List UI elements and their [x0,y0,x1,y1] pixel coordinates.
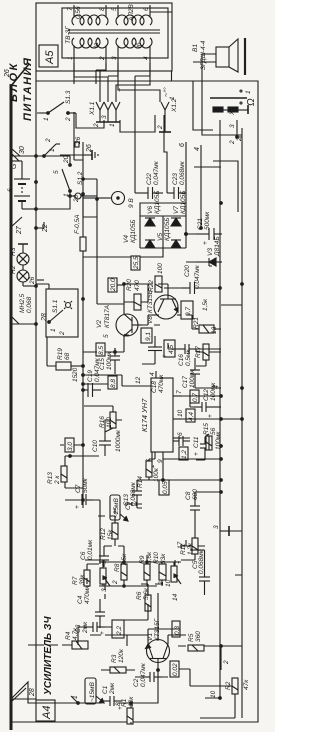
capacitor C20 0.047mk [182,264,221,294]
wire T1 primary to X1 [74,63,108,102]
voltage box 3.0 [65,438,74,452]
node V2 emitter-C15 [114,351,117,354]
svg-text:Н2: Н2 [10,265,17,274]
wire 0.02 to R2 [179,669,232,686]
transformer T1 enclosure [62,8,168,58]
svg-text:ЗГДШ-4-4: ЗГДШ-4-4 [200,40,207,70]
svg-text:С20: С20 [184,265,191,277]
wire 25mV to IC [98,508,115,516]
svg-text:V6: V6 [147,206,154,214]
svg-text:12: 12 [135,376,142,384]
wire C11 R15 [179,434,209,460]
svg-text:470мк: 470мк [84,585,91,604]
resistor R11 1.2k [180,538,198,555]
svg-text:6: 6 [143,7,150,11]
pin 8 T1 [105,5,107,17]
svg-text:С12: С12 [203,389,210,401]
voltage box 2.2 [112,620,124,638]
svg-text:V2: V2 [96,320,103,328]
wire bridge left rail [140,247,186,249]
wire C6 down [104,546,124,555]
svg-text:3: 3 [111,56,118,60]
wire speaker feed [193,81,213,130]
wire R11 [180,546,205,560]
ground chassis near S1.3 [84,150,98,160]
svg-text:R21: R21 [193,317,200,329]
wire bridge right rail [140,215,186,217]
voltage box 1.2 [179,447,188,460]
resistor R21 1.5k [193,298,218,334]
node R13-3.0 [69,455,72,458]
wire V1 collector to R4 node [90,635,148,646]
wire C17 C18 net [142,336,221,388]
svg-text:V4: V4 [123,235,130,243]
transistor V2 KT817A [96,304,142,344]
A4 label box [36,700,55,721]
svg-text:В1: В1 [192,44,199,52]
signal level box 15mV input [85,678,104,704]
svg-text:R9: R9 [139,555,146,564]
voltage box 4.4 [186,409,195,422]
wire net 4 [200,145,202,228]
svg-text:5: 5 [53,170,60,174]
capacitor C17 100mk [182,362,200,388]
wire R2 to frame gnd [200,694,235,718]
svg-text:F-0,5А: F-0,5А [74,214,81,234]
svg-text:R4: R4 [65,631,72,640]
svg-text:С22: С22 [146,173,153,185]
wire C9 [125,502,142,506]
terminal box small [75,142,79,147]
svg-text:2: 2 [93,123,100,128]
svg-text:1: 1 [245,90,252,94]
svg-text:1: 1 [43,117,50,121]
wire V1 base to pot [157,593,159,640]
pin 3 T1 [117,46,119,63]
svg-text:0,047мк: 0,047мк [140,662,147,687]
capacitor C5 0.068mk [190,549,210,595]
voltage box 8.5 [96,343,105,356]
wire R6 left [124,611,148,620]
wire bridge top [139,216,141,248]
wire S1.1 to R19 [47,337,56,366]
svg-text:5,6к: 5,6к [143,587,150,600]
transistor V1 KT315G [146,618,170,670]
svg-text:25,5: 25,5 [133,256,140,270]
svg-text:G: G [11,163,18,169]
wire ground rail [241,128,243,718]
wire R5 V1 emitter junction [204,645,221,647]
wire IC pin7 down [182,395,221,397]
node R1 input [130,702,133,705]
node jack stub [236,136,239,139]
wire bridge mid-left to fuse [83,248,163,257]
svg-text:7: 7 [67,7,74,11]
svg-text:0,068: 0,068 [26,296,33,313]
wire R3 bottom [101,669,135,671]
svg-text:47к: 47к [243,679,250,690]
svg-text:R14: R14 [137,476,144,488]
wire 20.0 stub [117,284,124,286]
svg-text:КД105Б: КД105Б [130,220,137,243]
svg-text:56: 56 [210,427,217,435]
svg-text:R22: R22 [148,280,155,292]
svg-text:1,5к: 1,5к [202,298,209,311]
svg-text:4: 4 [149,372,156,376]
svg-text:9 В: 9 В [128,198,135,208]
wire A4 boundary outline [11,81,258,722]
wire trafo sec to bridge [135,112,167,193]
resistor R7 39k [72,570,90,586]
wire pot taps [85,555,175,566]
capacitor C16 [177,344,196,366]
wire C16 R17 net [168,343,221,366]
wire R7 C6 [87,564,104,584]
wire V8 emitter R21 [186,315,221,329]
svg-text:∼°°: ∼°° [162,87,170,98]
svg-text:Ω: Ω [246,98,257,106]
svg-text:0,047мк: 0,047мк [194,264,201,289]
svg-text:6: 6 [7,188,14,192]
svg-text:С9: С9 [125,501,132,510]
svg-text:С1: С1 [102,685,109,694]
capacitor C19 0.047mk [83,357,101,397]
resistor R8 7.5k [114,553,128,580]
svg-text:С17: С17 [182,376,189,388]
svg-text:0,7: 0,7 [192,393,199,402]
capacitor C6 0.01mk [80,539,109,567]
wire 3.0 box stub [60,444,83,446]
svg-text:470: 470 [134,280,141,291]
wire V1 collector node to 0.3 [148,629,180,635]
resistor R3 120k [110,648,126,673]
pin 1 T1 [73,46,75,63]
capacitor C22 [135,160,163,199]
svg-text:10: 10 [210,690,217,698]
socket X3 9V [75,192,135,209]
node 27 tick [11,217,23,235]
svg-text:0,02: 0,02 [172,663,179,676]
wire rail b to V2 [83,179,97,304]
svg-text:С10: С10 [92,440,99,452]
resistor R5 360 [188,631,204,651]
capacitor C11 [193,431,222,456]
svg-text:3,0: 3,0 [67,442,74,451]
svg-text:2: 2 [229,140,236,145]
svg-text:+: + [161,354,168,358]
svg-text:R6: R6 [136,591,143,600]
svg-text:2,2: 2,2 [116,626,123,636]
diode V4 [145,240,155,248]
svg-text:БЛОК: БЛОК [8,61,20,102]
wire 17 tap [185,540,187,546]
svg-text:27: 27 [16,225,23,235]
wire supply rail 8.8v [82,251,84,508]
svg-text:С16: С16 [178,354,185,366]
svg-text:4: 4 [143,56,150,60]
svg-text:С8: С8 [185,491,192,500]
resistor R4 4.7k [65,627,88,649]
svg-text:26: 26 [29,276,36,285]
svg-text:6: 6 [177,432,184,436]
wire bridge bottom [185,187,187,248]
wire output riser [194,166,221,168]
svg-text:30: 30 [19,146,26,154]
IC pin 12 [122,385,151,387]
svg-text:8,8: 8,8 [110,379,117,388]
svg-text:0,3: 0,3 [174,626,181,635]
switch S1.1 lamp switch box [46,289,78,337]
voltage box 9.7 [181,301,193,319]
junction dots rail83 [82,499,85,502]
capacitor C7 50mk [65,477,93,509]
svg-text:R3: R3 [111,654,118,663]
svg-text:~: ~ [117,88,124,92]
svg-text:V7: V7 [173,206,180,214]
capacitor C3 2mk [75,621,106,635]
wire bus trunk top [10,86,13,730]
resistor R22 100 [148,263,164,292]
wire rail37 to bridge net [37,279,44,281]
wire X1.1 to S1.3 [37,113,135,132]
capacitor C13 0.068mk [123,481,142,506]
diode V7 [171,218,181,226]
wire rail A5 risers [36,222,44,228]
pin 7 T1 [73,5,75,17]
node 1 input [71,695,79,704]
svg-text:8: 8 [99,7,106,11]
IC pin 9 [162,452,164,459]
svg-text:5: 5 [103,334,110,338]
resistor R20 470 [126,279,141,310]
battery G [7,154,36,209]
resistor R10 33k [153,552,167,580]
node bridge out [185,233,188,236]
svg-text:R7: R7 [72,576,79,585]
svg-text:Iа: Iа [93,42,100,48]
wire C12 down [214,406,221,408]
svg-text:S1.1: S1.1 [52,299,59,313]
voltage box 4.5 [164,340,175,357]
capacitor C12 100mk [194,382,217,418]
svg-text:R5: R5 [188,633,195,642]
wire ground rail risers [221,305,242,670]
svg-text:68: 68 [64,352,71,360]
wire S1.1 right to rail [36,284,49,289]
svg-text:С6: С6 [80,551,87,560]
wire rail b [96,179,98,300]
svg-text:13: 13 [211,326,218,334]
svg-text:С18: С18 [151,381,158,393]
capacitor C18 470mk [148,340,168,393]
wire 8.8 stub [83,383,108,385]
diode V5 [171,240,181,248]
svg-text:Д814Б: Д814Б [214,236,221,257]
capacitor C10 1000mk [92,429,122,454]
wire C19 stubs [82,389,85,392]
transformer T1 core [68,32,160,34]
wire V1 emitter to R5 [168,635,186,646]
svg-text:8,5: 8,5 [98,346,105,355]
svg-text:R19: R19 [57,348,64,360]
wire R16 to rail [84,406,113,412]
diode V6 [145,218,155,226]
wire bridge plus to regulator [82,142,84,160]
wire V2 base chain [142,315,160,325]
resistor R6 5.6k [136,587,151,611]
capacitor C21 500mk [196,211,222,245]
svg-text:360: 360 [195,631,202,642]
A5 power block box [36,3,172,71]
svg-text:2: 2 [65,117,72,122]
svg-text:2: 2 [223,660,230,665]
pin 2 T1 [105,46,107,63]
svg-text:К174 УН7: К174 УН7 [140,398,149,432]
pin 6 T1 [149,5,151,17]
svg-text:ПИТАНИЯ: ПИТАНИЯ [22,57,34,121]
svg-text:А5: А5 [44,50,56,65]
resistor R16 100 [99,412,116,428]
wire tap rail A5 [35,71,37,81]
svg-text:+: + [99,631,106,635]
wire S1.2 to socket [70,195,75,197]
terminal 3 bar [213,525,229,536]
svg-text:3: 3 [213,525,220,529]
svg-text:0,047мк: 0,047мк [153,160,160,185]
svg-text:С19: С19 [87,370,94,382]
svg-text:10: 10 [177,409,184,417]
svg-text:2 к: 2 к [54,475,61,485]
svg-text:2: 2 [59,331,66,336]
node R2 rail [219,697,222,700]
svg-text:100мк: 100мк [106,351,113,370]
svg-text:0,05: 0,05 [162,481,169,494]
wire zener net [186,234,196,262]
wire input 28 to pin 1 [11,682,102,703]
svg-text:~15мВ: ~15мВ [89,682,96,702]
svg-text:С4: С4 [77,595,84,604]
svg-text:С11: С11 [193,436,200,448]
wire T1 pin2 [100,63,106,102]
resistor R12 15k [100,523,118,540]
svg-text:20,0: 20,0 [110,278,117,292]
wire R4 top to rail [28,644,72,646]
svg-text:4: 4 [194,147,201,151]
svg-text:2мк: 2мк [109,682,116,695]
wire jack stub [237,120,242,137]
wire fuse to trafo [74,112,97,217]
svg-text:5: 5 [111,7,118,11]
resistor R13 2k [47,466,67,485]
svg-text:680: 680 [192,489,199,500]
fuse F1 0.5A [74,214,86,251]
svg-text:R12: R12 [100,528,107,540]
voltage box 20.0 [108,278,117,292]
wire C7 to C6 node [92,500,100,564]
svg-text:1: 1 [169,96,176,100]
wire net 6 [185,142,187,187]
transistor V8 KT315B [147,288,186,324]
resistor R2 47k [225,678,250,694]
wire C3 to R3 node [78,627,112,645]
svg-text:0,5мк: 0,5мк [185,349,192,366]
svg-text:1,2: 1,2 [181,450,188,459]
svg-text:20: 20 [63,155,70,164]
wire C1 to V1 base [102,670,158,703]
svg-text:120к: 120к [118,648,125,663]
svg-text:С7: С7 [75,484,82,493]
resistor R17 [195,344,209,360]
svg-text:С21: С21 [197,218,204,230]
svg-text:+: + [193,452,200,456]
wire R1 leads [130,703,132,724]
A5 label box [39,45,58,67]
svg-text:УСИЛИТЕЛЬ ЗЧ: УСИЛИТЕЛЬ ЗЧ [43,615,54,695]
svg-text:2: 2 [45,138,52,143]
wire X1.2 leads [135,124,155,132]
capacitor C8 680 [185,489,200,518]
svg-text:АЛ2В: АЛ2В [128,4,135,22]
svg-text:10: 10 [165,579,172,587]
transformer T1 winding Ia [72,38,108,48]
svg-text:0,56: 0,56 [75,6,82,19]
wire output second riser [213,161,238,212]
svg-text:1000мк: 1000мк [115,429,122,452]
IC pin 6 [173,437,182,439]
wire A5 edge stub [150,12,172,81]
IC pin 7 [173,395,182,397]
wire C4 C5 [100,584,105,628]
svg-text:R20: R20 [126,279,133,291]
capacitor C1 2mk [102,682,124,710]
svg-text:R13: R13 [47,472,54,484]
svg-text:X1.1: X1.1 [89,101,96,116]
transformer T1 winding Ib [116,38,152,48]
wire R20 R22 chain [124,284,148,304]
node base junction [157,669,160,672]
svg-text:0,047мк: 0,047мк [94,357,101,382]
svg-text:~25мВ: ~25мВ [113,498,120,518]
voltage box 0.3 [172,621,181,637]
wire bus end diagonal 26 [11,64,29,86]
voltage box 8.8 [108,376,117,389]
pin 4 T1 [149,46,151,63]
wire V2 collector [97,303,124,305]
svg-text:28: 28 [29,688,36,697]
svg-text:Н3: Н3 [10,247,17,256]
node gnd dots [241,387,244,390]
node railb [96,198,99,201]
IC D1 K174UN7 [151,378,173,452]
potentiometer R2pot [171,560,181,584]
capacitor C23 [167,160,186,199]
svg-text:С2: С2 [133,678,140,687]
wire 9V socket stub [83,197,97,199]
wire speaker leads [193,54,216,62]
wire C10 to R16 [105,420,122,456]
wire C8 net [195,492,221,538]
voltage box 0.05 [159,480,169,495]
voltage box 0.7 [190,390,199,403]
wire IC pin6 c12 [182,396,194,438]
wire T1 pin3 fuse feed [118,63,160,102]
svg-text:R15: R15 [203,423,210,435]
wire R12 [110,516,115,546]
resistor R19 68 [56,348,83,370]
svg-text:3: 3 [229,124,236,128]
wire bridge mid [162,216,164,248]
connector X1.2 [155,87,178,132]
